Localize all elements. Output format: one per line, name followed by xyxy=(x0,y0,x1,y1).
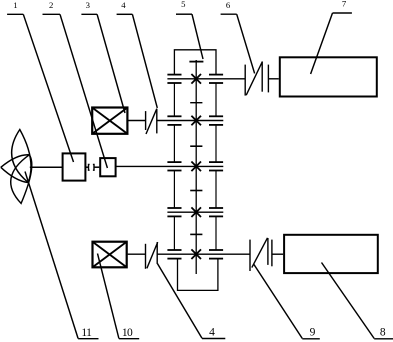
svg-text:8: 8 xyxy=(380,326,386,338)
upper coupling 4 xyxy=(146,109,157,134)
box component 2 xyxy=(100,158,115,176)
mesh cross level 5 xyxy=(191,249,201,259)
gearbox bottom bracket xyxy=(178,259,218,291)
svg-text:11: 11 xyxy=(81,327,92,339)
label 2 xyxy=(49,0,53,10)
center shaft top cap xyxy=(189,61,203,63)
mesh cross level 2 xyxy=(191,116,201,126)
propeller 11 xyxy=(1,130,32,204)
mesh cross level 3 xyxy=(191,162,201,172)
center shaft tick 4 xyxy=(190,233,202,235)
label 7 xyxy=(342,0,347,8)
shaft box1 to coupling xyxy=(86,166,88,168)
gear caps level 2 xyxy=(167,116,223,125)
label 5 underline xyxy=(176,13,192,15)
leader line to gearbox 5 xyxy=(192,14,203,59)
label 10 underline xyxy=(119,338,139,340)
label 11 xyxy=(81,327,92,339)
propeller shaft xyxy=(30,166,62,168)
svg-text:1: 1 xyxy=(13,0,17,10)
gear caps level 4 xyxy=(167,208,223,216)
leader line to component 2 xyxy=(60,14,107,168)
svg-text:10: 10 xyxy=(122,327,133,339)
label 11 underline xyxy=(78,338,98,340)
leader line to propeller 11 xyxy=(25,172,78,339)
svg-text:9: 9 xyxy=(310,326,316,338)
level 4 shaft xyxy=(167,211,223,213)
gear caps level 1 xyxy=(167,75,223,83)
leader line to coupling 9 xyxy=(254,264,302,338)
leader line to coupling 6 xyxy=(237,14,255,73)
gear caps level 5 xyxy=(167,250,223,259)
label 5 xyxy=(181,0,185,9)
gearbox top bracket xyxy=(174,50,216,75)
label 4 xyxy=(121,0,126,10)
svg-text:4: 4 xyxy=(121,0,126,10)
shaft box3 to upper coupling 4 xyxy=(128,120,146,122)
shaft coupling to box 2 xyxy=(94,166,99,168)
leader line to component 1 xyxy=(23,14,73,162)
label 8 underline xyxy=(374,338,393,340)
gear caps level 3 xyxy=(167,162,223,170)
shaft coupling 9 to motor 8 xyxy=(272,253,283,255)
label 6 underline xyxy=(221,13,237,15)
svg-text:2: 2 xyxy=(49,0,53,10)
level 5 shaft xyxy=(128,253,250,255)
mesh cross level 4 xyxy=(191,207,201,217)
center shaft tick 2 xyxy=(190,145,202,147)
svg-text:4: 4 xyxy=(209,326,215,338)
coupling 9 xyxy=(250,238,272,271)
label 1 xyxy=(13,0,17,10)
svg-text:3: 3 xyxy=(86,0,90,10)
svg-text:6: 6 xyxy=(226,0,231,10)
lower coupling 4 xyxy=(146,242,158,269)
bottom label 4 xyxy=(209,326,215,338)
label 1 underline xyxy=(7,13,23,15)
leader line to box 10 xyxy=(98,254,119,339)
box component 1 xyxy=(63,153,86,180)
label 4 underline xyxy=(117,13,133,15)
leader line to lower coupling 4 xyxy=(157,264,202,339)
label 9 xyxy=(310,326,316,338)
small coupling between 1 and 2 xyxy=(89,164,95,170)
svg-text:5: 5 xyxy=(181,0,185,9)
label 8 xyxy=(380,326,386,338)
shaft coupling 6 to motor 7 xyxy=(268,78,278,80)
leader line to motor 8 xyxy=(322,263,375,339)
center shaft tick 1 xyxy=(190,102,202,104)
level 2 shaft xyxy=(157,120,223,122)
mesh cross level 1 xyxy=(191,74,201,84)
shaft box2 to gearbox (level 3) xyxy=(116,165,223,167)
box component 10 with cross xyxy=(93,242,127,268)
gearbox left gear line xyxy=(173,83,175,250)
level 1 shaft xyxy=(167,78,245,80)
motor 7 xyxy=(280,57,377,96)
label 3 xyxy=(86,0,90,10)
label 2 underline xyxy=(43,13,61,15)
center shaft tick 3 xyxy=(190,190,202,192)
leader line to component 3 xyxy=(97,14,125,113)
label 9 underline xyxy=(302,338,320,340)
gearbox right gear line xyxy=(215,83,217,250)
motor 8 xyxy=(284,235,378,273)
label 6 xyxy=(226,0,231,10)
label 3 underline xyxy=(81,13,97,15)
leader line to motor 7 xyxy=(311,13,333,74)
leader line to upper coupling 4 xyxy=(132,14,157,108)
label 10 xyxy=(122,327,133,339)
box component 3 with cross xyxy=(92,108,127,134)
coupling 6 xyxy=(245,62,268,96)
label 7 underline xyxy=(333,12,352,14)
bottom label 4 underline xyxy=(202,338,225,340)
svg-text:7: 7 xyxy=(342,0,347,8)
gearbox center shaft xyxy=(195,60,197,274)
